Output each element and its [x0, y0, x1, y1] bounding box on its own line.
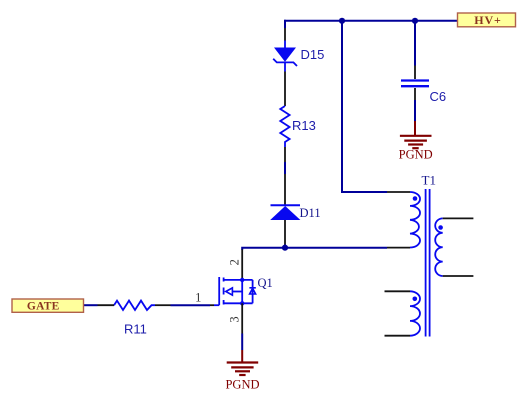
- wire rail to T1 primary top: [342, 21, 387, 192]
- wire GATE port to R11: [84, 304, 98, 306]
- svg-text:1: 1: [195, 290, 201, 304]
- wire D11 to drain net: [284, 245, 286, 248]
- pin Q1 gate lead: [210, 304, 214, 306]
- wire C6 to PGND: [414, 100, 416, 121]
- pin T1 auxiliary top lead: [385, 290, 411, 292]
- pin T1 primary bottom lead: [387, 247, 410, 249]
- pin T1 auxiliary bottom lead: [385, 335, 411, 337]
- svg-text:3: 3: [228, 316, 242, 322]
- label C6: [430, 89, 447, 104]
- svg-text:C6: C6: [430, 89, 447, 104]
- pin D11 anode lead: [284, 220, 286, 245]
- svg-text:R13: R13: [292, 118, 316, 133]
- resistor R11: [114, 301, 155, 310]
- pin R13 bottom lead: [284, 147, 286, 162]
- node junction at transformer branch: [339, 18, 345, 24]
- pin T1 secondary bottom lead: [443, 275, 474, 277]
- pin number 1: [195, 290, 201, 304]
- pin T1 primary top lead: [387, 191, 410, 193]
- wire R11 to Q1 gate: [171, 304, 211, 306]
- wire Q1 source to PGND: [241, 334, 243, 351]
- label T1: [422, 173, 436, 188]
- label D11: [300, 206, 321, 220]
- pin number 2: [228, 259, 242, 265]
- pin D11 cathode lead: [284, 174, 286, 205]
- wire top rail: [284, 20, 458, 22]
- pin C6 top lead: [414, 66, 416, 80]
- port GATE: [12, 299, 84, 313]
- transformer T1 core: [426, 189, 430, 337]
- transistor Q1 (N-MOSFET): [214, 277, 256, 305]
- svg-text:D15: D15: [301, 47, 325, 62]
- pin R11 left lead: [98, 304, 115, 306]
- diode D15 (zener): [273, 48, 297, 72]
- pin number 3: [228, 316, 242, 322]
- transformer T1 auxiliary winding: [410, 291, 420, 335]
- ground PGND below Q1: [225, 350, 259, 392]
- svg-text:HV+: HV+: [474, 13, 502, 27]
- pin Q1 drain lead: [241, 250, 243, 280]
- pin R11 right lead: [155, 304, 171, 306]
- pin D15 cathode lead: [284, 28, 286, 48]
- svg-text:2: 2: [228, 259, 242, 265]
- ground PGND below C6: [399, 121, 433, 162]
- pin Q1 source lead: [241, 303, 243, 333]
- wire R13 to D11: [284, 162, 286, 174]
- svg-text:Q1: Q1: [258, 276, 273, 290]
- svg-text:PGND: PGND: [399, 148, 433, 162]
- svg-text:GATE: GATE: [27, 301, 60, 313]
- node junction drain net: [282, 245, 288, 251]
- node junction at C6 branch: [412, 18, 418, 24]
- pin T1 secondary top lead: [443, 217, 474, 219]
- svg-text:PGND: PGND: [225, 378, 259, 392]
- capacitor C6: [401, 81, 429, 87]
- transformer T1 primary winding: [410, 192, 420, 248]
- label D15: [301, 47, 325, 62]
- label R11: [124, 322, 147, 337]
- pin D15 anode lead: [284, 72, 286, 107]
- resistor R13: [280, 106, 289, 147]
- svg-text:T1: T1: [422, 173, 436, 188]
- transformer T1 secondary winding: [435, 218, 443, 276]
- wire rail to C6: [414, 21, 416, 66]
- svg-text:D11: D11: [300, 206, 321, 220]
- svg-text:R11: R11: [124, 322, 147, 337]
- port HV+: [458, 13, 516, 27]
- label Q1: [258, 276, 273, 290]
- diode D11: [270, 205, 300, 220]
- label R13: [292, 118, 316, 133]
- wire from rail down to D15: [284, 20, 286, 28]
- pin C6 bottom lead: [414, 88, 416, 100]
- wire drain net horizontal: [242, 248, 387, 250]
